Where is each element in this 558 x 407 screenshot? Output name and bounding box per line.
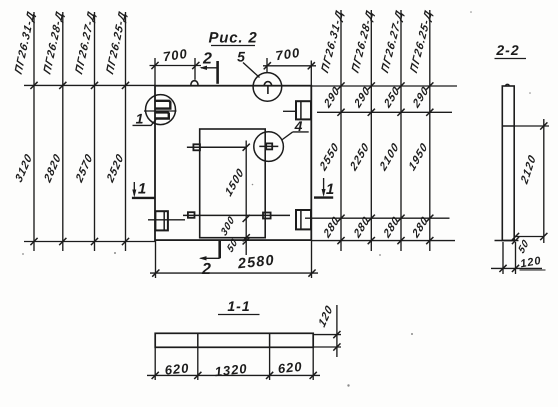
right extension 290-row [317, 111, 452, 113]
circle 4 pin plate [266, 143, 272, 149]
svg-text:2-2: 2-2 [495, 42, 519, 58]
ext square left top [154, 58, 156, 86]
dim 120 underline (2-2) [520, 269, 546, 271]
plan square outline [155, 86, 311, 240]
right column line R4 [429, 10, 431, 251]
section 2-2 title underline [495, 58, 527, 60]
bottom pin axis row [183, 214, 290, 216]
section 1-1 dim 120 vline [336, 305, 338, 357]
left bottom extension line [24, 241, 156, 243]
section 1 arrow right: line [323, 178, 325, 195]
ticks 50 (2-2) [512, 233, 519, 240]
channel BL axis [148, 219, 185, 221]
ext square right top [310, 61, 312, 86]
channel BL box [155, 211, 168, 230]
section 2-2 ext to dim top [514, 125, 549, 127]
svg-text:620: 620 [277, 359, 303, 377]
section 1-1 divider a [197, 333, 199, 347]
channel TR box [296, 101, 311, 119]
loop pin in circle 5 [267, 86, 269, 94]
svg-text:2: 2 [201, 261, 211, 278]
callout 4 underline [293, 131, 309, 133]
bottom-right pin plate [263, 213, 271, 219]
section 1-1 right ext top [313, 334, 341, 336]
plan inner rect (opening) [200, 129, 266, 238]
detail circle 1 top-left [146, 95, 176, 125]
section 1-1 dim line [147, 374, 320, 376]
ticks right rows [337, 82, 344, 89]
ticks section 1-1 [152, 372, 159, 379]
ext 2580 left [155, 240, 157, 278]
section 2-2 bottom ext verticals [502, 242, 504, 274]
section mark 2 top: arrow line [201, 67, 218, 69]
right column line R3 [400, 10, 402, 251]
dim 2580 line [150, 272, 318, 274]
ticks 700 dims [151, 62, 158, 69]
section mark 2 bottom: arrowhead [199, 256, 207, 260]
section 1-1 right ext bottom [313, 346, 341, 348]
channel BR inner line [300, 210, 302, 229]
section 2-2 division line [502, 125, 514, 127]
lifting loop left [191, 81, 198, 86]
left column line L1 [33, 12, 35, 251]
dim 700 right line [263, 65, 316, 67]
section mark 2 top: bar [216, 61, 219, 84]
dim 700 left line [150, 65, 202, 67]
section 1 right: baseline [314, 196, 333, 198]
section mark 2 top: arrowhead [200, 66, 208, 70]
right extension bottom [311, 240, 455, 242]
svg-text:620: 620 [164, 360, 190, 378]
svg-text:4: 4 [294, 118, 303, 134]
section 1 left: baseline [132, 197, 156, 199]
section 2-2 panel rect [502, 86, 514, 241]
top-left pin plate [193, 144, 200, 150]
ext circle5 [266, 58, 268, 73]
section 1-1 ext verticals [154, 348, 156, 380]
right extension pin-row [305, 217, 450, 219]
svg-text:5: 5 [237, 49, 245, 65]
detail circle 5 [253, 73, 282, 102]
channel BR box [296, 210, 311, 229]
right column line R2 [370, 10, 372, 251]
title underline [211, 45, 255, 47]
bottom-left pin plate [188, 212, 195, 218]
svg-text:1: 1 [326, 181, 334, 198]
ticks 2120 [540, 122, 547, 129]
section 2-2 dim 2120 vline [543, 119, 545, 243]
section 1 arrow left: line [133, 182, 135, 195]
callout 4 leader [282, 132, 293, 140]
svg-text:2: 2 [202, 51, 212, 68]
ticks 120 (2-2) [499, 265, 506, 272]
section 2-2 step ext line [514, 236, 544, 238]
circle 4 pin axis [259, 145, 278, 147]
section 1-1 divider b [269, 333, 271, 347]
callout 1 leader [133, 120, 157, 126]
ext loop left [194, 58, 196, 80]
channel TL bars [155, 101, 170, 109]
ticks 2580 [152, 270, 159, 277]
detail circle 4 [254, 132, 284, 162]
channel TR axis [283, 110, 297, 112]
section 1-1 title underline [218, 314, 260, 316]
ext 2580 right [311, 240, 313, 278]
top pin axis row [187, 146, 246, 148]
ticks 1500/300/50 [243, 144, 250, 151]
section 2-2 bottom dim line [491, 267, 542, 269]
section 2-2 bottom edge ext left [495, 240, 519, 242]
left column line L4 [125, 12, 127, 251]
right extension top [311, 85, 457, 87]
svg-text:1: 1 [136, 111, 144, 127]
section mark 2 bottom: arrow line [201, 257, 220, 259]
section 1 arrow left: head [132, 190, 136, 198]
channel TR inner line [300, 101, 302, 119]
left column line L2 [62, 12, 64, 251]
svg-text:Рис. 2: Рис. 2 [209, 30, 258, 47]
section 2-2 loop tip [506, 84, 510, 86]
left top extension line [24, 84, 155, 86]
right column line R1 [340, 10, 342, 251]
ticks left top row [30, 82, 37, 89]
callout 5 leader [243, 63, 260, 78]
section 1-1 slab rect [155, 333, 313, 347]
left column line L3 [94, 12, 96, 251]
ticks left bottom row [30, 238, 37, 245]
channel BL inner line [163, 211, 165, 230]
ticks 120 [333, 331, 340, 338]
dim 1500 vertical line [245, 141, 247, 256]
section 1 arrow right: head [322, 189, 326, 197]
channel TL axis [144, 110, 177, 112]
section mark 2 bottom: bar [218, 241, 221, 259]
svg-text:1: 1 [138, 181, 146, 198]
loop dome in circle 5 [264, 82, 271, 86]
svg-text:1-1: 1-1 [227, 298, 250, 314]
